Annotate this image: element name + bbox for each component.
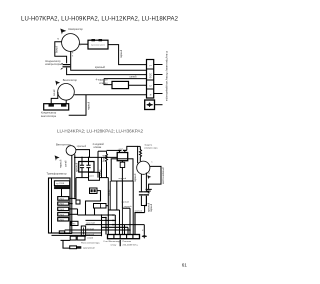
- wire at (64.7,230): [65, 229, 130, 231]
- svg-text:CN01: CN01: [59, 199, 65, 201]
- terminal block TB1 cell divider 1/2: [147, 68, 154, 70]
- wire at (101.5,157.4): [101, 157, 103, 177]
- wire at (68.7,203.6): [69, 203, 72, 205]
- svg-text:черный: черный: [119, 177, 127, 180]
- wire at (124.5,224.6): [124, 225, 126, 235]
- wire at (74.8,154.5): [74, 155, 76, 198]
- terminal block TB1 cell divider 2/3: [147, 79, 154, 81]
- bottom small boxes: [70, 236, 76, 240]
- compressor leads down: [140, 174, 142, 192]
- compressor earth path: [149, 166, 161, 189]
- box above connector: [89, 172, 100, 180]
- divider mark below TB2: [119, 240, 121, 246]
- wire stub terminal 1: [154, 64, 163, 66]
- terminal numbers: [148, 65, 152, 96]
- wire at (106,217.5): [105, 218, 107, 235]
- svg-text:Питание: Питание: [123, 241, 132, 243]
- svg-text:4-ходовой: 4-ходовой: [96, 78, 109, 82]
- box at (57.7,217.6): [58, 218, 69, 221]
- svg-text:синий: синий: [99, 169, 102, 176]
- connector boxes on PCB: [58, 197, 69, 201]
- transformer T1: [54, 181, 69, 186]
- wire at (85.5,224.6): [86, 224, 145, 226]
- junction at (106,220.4): [105, 220, 107, 222]
- capacitor C1 plates: [63, 64, 71, 66]
- svg-text:красный: красный: [95, 65, 105, 69]
- junction at (71.8,232.9): [71, 232, 73, 234]
- terminal block TB2 cell dividers: [114, 235, 133, 239]
- wire stub ground terminal: [155, 104, 163, 106]
- valve Y2 core stem: [121, 161, 123, 163]
- svg-text:Реле вентилятора: Реле вентилятора: [81, 243, 100, 245]
- fan right wire to cap: [76, 150, 90, 158]
- junction at (124.5,230): [124, 229, 126, 231]
- svg-text:Защита: Защита: [144, 145, 153, 147]
- ground symbol TB2: [142, 235, 146, 238]
- caps on compressor leads C4 C5: [139, 192, 149, 195]
- svg-text:белый: белый: [102, 154, 105, 162]
- connector CN pin 2: [94, 189, 96, 192]
- fan arrow: [55, 81, 60, 86]
- box at (77.2,236.2): [77, 236, 85, 240]
- wire stub terminal 2: [154, 74, 163, 76]
- svg-text:CN05: CN05: [59, 219, 65, 221]
- svg-text:желто-зеленый: желто-зеленый: [162, 166, 165, 184]
- mesh verticals into terminal row: [101, 215, 103, 236]
- wire at (101.5,217.5): [102, 217, 107, 219]
- rotated labels bottom: [60, 154, 166, 212]
- wire valve core lead down: [121, 168, 123, 209]
- svg-text:LU-H07KPA2, LU-H09KPA2, LU-H12: LU-H07KPA2, LU-H09KPA2, LU-H12KPA2, LU-H…: [21, 17, 179, 23]
- svg-text:клап.: клап.: [119, 148, 124, 150]
- wire at (64.7,232.2): [65, 232, 72, 233]
- junction at (119.5,224.6): [119, 224, 121, 226]
- terminal pin at (77,246.2): [77, 246, 81, 249]
- svg-text:черный: черный: [87, 101, 90, 110]
- junction at (74.8,157.4): [74, 157, 76, 159]
- box at (69.7,245.9): [70, 246, 77, 249]
- wire left to zigzag: [98, 150, 107, 152]
- earth ground symbol bar2: [147, 190, 151, 192]
- connector box texts: [59, 175, 95, 225]
- valve right terminal to compressor: [127, 146, 138, 163]
- junction at (130,230): [129, 229, 131, 231]
- box at (107.5,234.5): [108, 235, 140, 239]
- wire at (60.5,240.4): [61, 239, 71, 241]
- wire at (108.3,210): [108, 209, 119, 211]
- wire fan bottom to capacitor: [65, 100, 67, 104]
- labels under terminal row: [104, 230, 146, 246]
- capacitor C1 hook upper: [61, 63, 63, 64]
- svg-text:вентилятора: вентилятора: [41, 115, 57, 118]
- fan motor M2: [58, 84, 75, 101]
- wire at (122.4,208.2): [121, 208, 123, 234]
- wire capacitor C3 left lower stub: [81, 168, 83, 178]
- svg-text:синий: синий: [87, 236, 94, 239]
- svg-text:Вентилятор: Вентилятор: [63, 78, 78, 82]
- bus under cap box: [76, 177, 89, 179]
- junction at (106,224.6): [105, 224, 107, 226]
- 4way valve outer box: [111, 159, 133, 181]
- svg-text:т-р 220В: т-р 220В: [56, 183, 65, 185]
- fan capacitor C2 box: [44, 104, 69, 110]
- svg-text:компрессора: компрессора: [45, 63, 61, 66]
- svg-text:красный: красный: [77, 145, 87, 148]
- box at (57.7,207.2): [58, 207, 69, 210]
- svg-text:красный: красный: [86, 221, 95, 224]
- svg-text:синий: синий: [130, 74, 138, 78]
- junction at (121.8,224.6): [122, 224, 124, 226]
- svg-text:220-240В 50Гц: 220-240В 50Гц: [123, 245, 139, 247]
- wire fan right to terminal 4: [74, 94, 146, 96]
- wire at (146.4,195.7): [145, 196, 147, 206]
- zigzag protector wire: [106, 151, 108, 177]
- junction at (101.5,215): [101, 214, 103, 216]
- inner element: [120, 162, 125, 167]
- wire at (98,151.2): [97, 151, 99, 177]
- wire compressor M to capacitor via left path: [55, 42, 67, 63]
- wire at (122.4,208.2): [122, 207, 130, 209]
- svg-text:синий: синий: [65, 160, 68, 167]
- box at (76,200): [76, 200, 80, 204]
- svg-text:оранжевый: оранжевый: [83, 247, 95, 250]
- svg-text:пусковое реле: пусковое реле: [91, 45, 106, 47]
- dual capacitor box C3: [79, 162, 94, 173]
- svg-text:К вн./Внешнему: К вн./Внешнему: [104, 241, 121, 243]
- ground symbol TB2 bar: [142, 235, 147, 237]
- 4-way valve loop wire to terminal 2: [104, 78, 147, 80]
- wire at (51.5,235.4): [52, 234, 102, 236]
- connector leads: [69, 197, 75, 199]
- svg-text:CN04: CN04: [59, 214, 65, 216]
- start relay box U1: [88, 40, 108, 49]
- wire stub terminal 3: [154, 84, 163, 86]
- svg-text:клапан: клапан: [94, 146, 102, 149]
- small connector with 2 pins: [90, 188, 98, 194]
- junction at (115.3,220.4): [115, 220, 117, 222]
- wire compressor R down and bus to terminal 2: [71, 51, 147, 70]
- fan motor M3: [66, 146, 76, 156]
- wire valve box lead inner: [109, 181, 111, 210]
- wire fan cap right branch: [69, 95, 86, 115]
- wire at (63,240.4): [63, 240, 70, 248]
- wire relay box to terminal 1: [108, 45, 147, 65]
- wire at (133.2,181): [132, 181, 134, 235]
- svg-text:желтый: желтый: [86, 233, 94, 236]
- narrow vertical box: [81, 226, 85, 236]
- junction at (115.3,224.6): [115, 224, 117, 226]
- svg-text:61: 61: [182, 262, 188, 267]
- wire valve box lead left-mid: [116, 181, 118, 210]
- earth ground symbol bar1: [146, 188, 152, 190]
- junction at (119.5,230): [119, 229, 121, 231]
- terminal pin at (98.8,39.3): [99, 39, 102, 41]
- wire from left T-cap: [107, 149, 118, 151]
- fuse F1 lower stub: [82, 235, 84, 237]
- svg-text:Конденсатор: Конденсатор: [41, 111, 57, 115]
- svg-text:К внутреннему блоку кондиционе: К внутреннему блоку кондиционера: [165, 51, 169, 101]
- valve Y2 left pin stem: [119, 151, 121, 153]
- ground box: [145, 100, 155, 110]
- wire at (68.7,214.3): [69, 213, 78, 215]
- small boxes right of PCB: [71, 221, 78, 225]
- earth ground symbol bar3: [148, 192, 150, 194]
- junction at (88.5,157.4): [88, 157, 90, 159]
- ground symbol TB1: [147, 104, 153, 106]
- arrow marker at (54.6,155.4): [55, 155, 60, 160]
- protector squiggle to compressor top: [140, 146, 142, 161]
- wire at (85.5,220.4): [86, 219, 116, 221]
- wire at (94.5,208): [94, 208, 96, 215]
- labels bottom diagram: [47, 143, 72, 176]
- wire at (115.3,215): [114, 215, 116, 235]
- capacitor C3a plates: [80, 165, 84, 167]
- left PCB block: [49, 178, 81, 234]
- ground symbol in box: [147, 102, 153, 107]
- svg-text:Трансформатор: Трансформатор: [47, 172, 67, 176]
- outer box leads: [107, 178, 109, 211]
- terminal pin at (61.3,104.2): [61, 104, 66, 106]
- box at (48.5,178): [49, 178, 71, 233]
- svg-text:M: M: [57, 38, 59, 40]
- terminal block TB1: [147, 60, 154, 99]
- svg-text:черный: черный: [121, 201, 129, 204]
- fuse F1 inner mark: [82, 228, 84, 235]
- terminal pin at (54.4,186.4): [54, 186, 69, 188]
- wire at (101.5,227.3): [102, 226, 129, 228]
- junction at (108.3,215): [108, 214, 110, 216]
- junction at (113,220.4): [112, 220, 114, 222]
- svg-text:черный: черный: [60, 159, 63, 168]
- ground symbol TB1: [147, 103, 153, 106]
- svg-text:черный: черный: [86, 227, 94, 230]
- junction at (82,157.4): [81, 157, 83, 159]
- box at (57.7,212.6): [58, 213, 69, 216]
- relay box in mesh: [94, 204, 107, 209]
- box at (59.3,230.9): [59, 231, 64, 234]
- svg-text:красный: красный: [76, 162, 79, 172]
- wire compressor C to relay box: [79, 43, 88, 45]
- wire at (128,227.3): [127, 227, 129, 234]
- middle mesh: [49, 172, 145, 248]
- wire at (108.3,211): [107, 211, 109, 235]
- svg-text:клапан: клапан: [99, 82, 108, 85]
- junction at (101.5,220.4): [101, 220, 103, 222]
- wire capacitor C3 left stub: [81, 157, 83, 165]
- wire capacitor C3 right stub: [88, 157, 90, 165]
- svg-text:черный: черный: [150, 203, 153, 212]
- terminal block TB1 cell divider 3/4: [147, 88, 154, 90]
- ground symbol TB1 vertical: [149, 102, 151, 107]
- relay K1 divider: [100, 204, 102, 209]
- junction dots: [71, 157, 136, 234]
- wire transformer stem: [61, 189, 63, 197]
- ground symbol TB2 vertical: [143, 234, 145, 238]
- valve Y2 right pin stem: [124, 151, 126, 153]
- box at (57.7,202): [58, 202, 69, 205]
- svg-text:реле: реле: [89, 175, 94, 177]
- svg-text:блоку: блоку: [111, 245, 118, 247]
- wire at (130,208.2): [129, 208, 131, 234]
- rotated wire labels d1: [53, 45, 123, 110]
- junction at (122.4,230): [122, 229, 124, 231]
- svg-text:CN03: CN03: [59, 209, 65, 211]
- wire at (97,190.6): [86, 191, 101, 215]
- bottom terminal row: [108, 235, 140, 239]
- svg-text:синий: синий: [108, 189, 111, 196]
- junction at (74.8,198.4): [74, 198, 76, 200]
- compressor bottom arrow: [147, 175, 151, 179]
- wire at (99.5,177.6): [100, 177, 109, 179]
- svg-text:белый: белый: [56, 45, 59, 53]
- earth symbol bottom compressor: [146, 189, 152, 192]
- fan wires down: [71, 155, 73, 233]
- junction at (113,224.6): [112, 224, 114, 226]
- valve Y2 right pin cap: [123, 149, 127, 151]
- wire at (141.4,195.7): [141, 196, 144, 213]
- wire at (71.8,232.9): [72, 232, 102, 234]
- wire capacitor bottom to bus: [67, 68, 147, 75]
- junction at (113,215): [112, 214, 114, 216]
- labels diagram 1: [63, 27, 83, 82]
- PCB inner wall: [51, 178, 53, 233]
- junction at (119.5,227.3): [119, 227, 121, 229]
- junction at (106,227.3): [105, 227, 107, 229]
- svg-text:черный: черный: [134, 210, 142, 213]
- terminal pin at (48.8,104.2): [49, 104, 54, 106]
- wire capacitor C3 right lower stub: [88, 168, 90, 178]
- wire at (144.3,224.6): [143, 225, 145, 235]
- compressor M4: [137, 161, 150, 174]
- wire at (106,205.7): [106, 205, 108, 207]
- capacitor C1 lower plate: [63, 66, 71, 68]
- svg-text:черный: черный: [120, 49, 123, 58]
- junction at (108.3,220.4): [108, 220, 110, 222]
- bottom buses from PCB: [49, 232, 60, 234]
- wire fan left to fan capacitor: [51, 92, 58, 104]
- 4-way valve coil Y1: [112, 81, 129, 88]
- wire at (68.7,208.9): [69, 208, 78, 210]
- svg-text:2(N): 2(N): [148, 73, 152, 78]
- mesh horizontals: [78, 214, 116, 216]
- svg-text:CN02: CN02: [59, 204, 65, 206]
- capacitor C3b plates: [86, 165, 90, 167]
- wire at (77.5,208.9): [77, 209, 79, 215]
- junction at (135,224.6): [134, 224, 136, 226]
- svg-text:черный: черный: [124, 205, 132, 208]
- svg-text:компрессора: компрессора: [144, 147, 158, 149]
- wire valve to terminal 3: [129, 84, 147, 86]
- bus to valve area: [75, 156, 117, 158]
- wire at (144.6,212.6): [135, 213, 145, 235]
- capacitor C1 hook lower: [61, 68, 63, 69]
- svg-text:LU-H24KPA2; LU-H28KPA2; LU-H36: LU-H24KPA2; LU-H28KPA2; LU-H36KPA2: [57, 129, 143, 134]
- junction at (71.8,203.6): [71, 203, 73, 205]
- wire at (146.4,172.6): [145, 173, 147, 192]
- svg-text:черный: черный: [134, 173, 137, 182]
- junction at (106,217.5): [105, 217, 107, 219]
- compressor M1: [62, 34, 80, 52]
- terminal pin at (91.7,39.3): [92, 39, 95, 41]
- compressor arrow: [60, 29, 66, 35]
- junction at (124.5,227.3): [124, 227, 126, 229]
- junction at (108.3,224.6): [108, 224, 110, 226]
- valve coil box Y2: [117, 153, 128, 161]
- svg-text:Компрессор: Компрессор: [68, 27, 83, 31]
- capacitor C4 plates: [139, 192, 144, 195]
- junction at (122.4,227.3): [122, 227, 124, 229]
- valve Y2 left pin cap: [118, 149, 122, 151]
- connector CN pin 1: [91, 189, 93, 192]
- wire stub terminal 4: [154, 93, 163, 95]
- capacitor C5 plates: [144, 192, 149, 195]
- svg-text:синий: синий: [53, 89, 56, 96]
- svg-text:Вентилятор: Вентилятор: [56, 143, 71, 147]
- junction at (106.5,157.4): [106, 157, 108, 159]
- wire at (76,177.6): [75, 178, 77, 200]
- wire at (119.5,210): [119, 210, 121, 235]
- wire protector bridge: [138, 145, 141, 147]
- wire valve loop corner: [104, 79, 112, 85]
- junction at (101.5,224.6): [101, 224, 103, 226]
